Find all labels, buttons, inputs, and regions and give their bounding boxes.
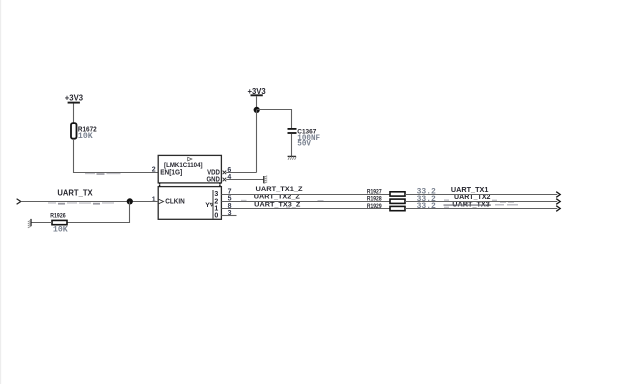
- page edge: [0, 0, 1, 384]
- wire: [73, 104, 75, 124]
- svg-text:EN[1G]: EN[1G]: [160, 168, 182, 177]
- ground (C1367): [288, 156, 297, 159]
- pin 6 no-connect x: [223, 171, 227, 175]
- svg-text:UART_TX2: UART_TX2: [454, 194, 491, 201]
- wire to port 3: [405, 208, 557, 210]
- svg-text:UART_TX1_Z: UART_TX1_Z: [256, 186, 303, 193]
- wire: [31, 222, 52, 224]
- svg-text:2: 2: [214, 198, 218, 205]
- wire VDD: [226, 172, 256, 174]
- output port chevron 1: [556, 192, 560, 198]
- svg-text:10K: 10K: [53, 226, 68, 235]
- Y output bank separator: [212, 190, 214, 219]
- svg-text:GND: GND: [207, 174, 220, 183]
- strikethrough artifact: [444, 204, 492, 206]
- svg-text:0: 0: [214, 212, 218, 219]
- power +3V3 (right): [248, 87, 267, 96]
- svg-text:10K: 10K: [78, 132, 93, 141]
- svg-text:UART_TX1: UART_TX1: [451, 187, 489, 194]
- wire: [74, 139, 159, 173]
- resistor R1927: [367, 188, 436, 197]
- wire to port 1: [405, 194, 557, 196]
- resistor R1926: [50, 212, 68, 234]
- svg-text:33.2: 33.2: [417, 202, 436, 211]
- svg-text:3: 3: [214, 191, 218, 198]
- svg-text:R1928: R1928: [367, 196, 382, 203]
- wire Y3 out: [221, 194, 390, 196]
- svg-text:UART_TX: UART_TX: [57, 188, 93, 197]
- wire Y0 stub: [221, 215, 236, 217]
- svg-text:3: 3: [228, 210, 232, 217]
- wire: [67, 202, 129, 223]
- power +3V3 (left): [65, 94, 84, 103]
- stale text artifact: [444, 199, 518, 208]
- resistor R1929: [367, 202, 436, 211]
- stale text artifact: [241, 200, 324, 209]
- wire UART_TX: [21, 201, 158, 203]
- resistor R1672: [71, 123, 97, 141]
- pin 4 no-connect x: [223, 178, 227, 182]
- svg-text:R1926: R1926: [50, 212, 66, 219]
- output port chevron 3: [556, 206, 560, 212]
- input port chevron: [17, 199, 21, 204]
- wire: [257, 110, 292, 129]
- stale text artifact: [85, 173, 121, 175]
- wire: [256, 110, 258, 173]
- svg-text:UART_TX3_Z: UART_TX3_Z: [254, 202, 300, 209]
- stale text artifact: [48, 202, 114, 204]
- IC LMK1C1104 buffer section (CLKIN / Y outputs): [158, 185, 221, 219]
- svg-text:50V: 50V: [297, 139, 311, 148]
- wire to port 2: [405, 201, 557, 203]
- svg-text:Y: Y: [205, 202, 210, 209]
- svg-text:+3V3: +3V3: [65, 94, 84, 103]
- wire: [256, 96, 258, 110]
- svg-text:R1929: R1929: [367, 203, 382, 210]
- wire: [291, 134, 293, 157]
- capacitor C1367: [288, 128, 321, 148]
- node junction: [127, 198, 133, 204]
- svg-text:R1927: R1927: [367, 188, 382, 195]
- svg-text:1: 1: [152, 197, 156, 204]
- output port chevron 2: [556, 199, 560, 205]
- wire Y2 out: [221, 201, 390, 203]
- node junction: [254, 107, 260, 113]
- clock input wedge: [159, 199, 164, 204]
- ground (R1926): [28, 219, 31, 228]
- dynamic triangle mark: [188, 157, 192, 161]
- wire Y1 out: [221, 208, 390, 210]
- svg-text:CLKIN: CLKIN: [165, 197, 185, 206]
- svg-text:2: 2: [152, 166, 156, 173]
- ground (pin 4): [264, 176, 267, 184]
- resistor R1928: [367, 195, 436, 204]
- IC LMK1C1104 power section (EN / VDD / GND): [158, 155, 221, 184]
- wire GND: [226, 179, 264, 181]
